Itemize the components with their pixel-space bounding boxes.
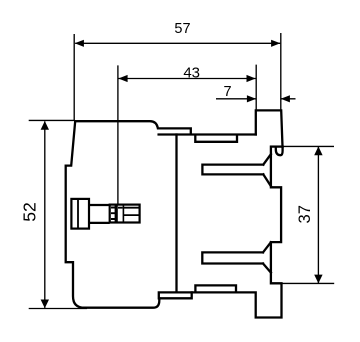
coil terminal screw assembly (71, 199, 139, 229)
svg-text:37: 37 (296, 205, 314, 223)
svg-text:52: 52 (19, 202, 39, 222)
claw J hook (276, 147, 283, 156)
dim 37 line (317, 147, 319, 283)
right side profile: faces, steps and foot (192, 147, 282, 318)
arrow 52 top (41, 121, 49, 130)
divider wall (175, 135, 177, 293)
tab3 above bottom line (195, 285, 236, 292)
dimension graphics (29, 33, 335, 309)
arrow 43 left (118, 75, 127, 82)
dim 43 line (118, 78, 255, 80)
tab2 below top line (195, 135, 237, 142)
upper terminal bar and funnel (202, 154, 271, 186)
arrow 7 right (points left) (281, 95, 290, 102)
clamp box (110, 205, 140, 223)
screw head slot line (77, 199, 79, 229)
clamp inner horizontals (123, 208, 139, 215)
tab4 below bottom line (159, 292, 192, 298)
dim 52 line (44, 121, 46, 308)
thread dashes (111, 208, 123, 220)
arrow 57 right (271, 40, 280, 47)
arrow 37 bottom (314, 275, 322, 284)
mounting flange plate (256, 110, 283, 146)
body outline left and bottom edge (66, 121, 160, 308)
claw notch top line (271, 145, 282, 147)
dim 43 extension lines (118, 65, 256, 205)
dim 57 extension lines (74, 33, 281, 121)
body outline top edge with tab1 (75, 121, 256, 134)
screw shaft (89, 205, 110, 223)
svg-text:43: 43 (183, 64, 200, 81)
svg-text:7: 7 (224, 84, 232, 100)
lower terminal bar and funnel (202, 242, 271, 272)
arrow 7 left (points right) (247, 95, 256, 102)
arrow 57 left (75, 40, 84, 47)
arrow 43 right (247, 75, 256, 82)
dim 52 extension lines (29, 120, 87, 308)
clamp inner verticals (115, 205, 123, 223)
arrow 52 bottom (41, 300, 49, 309)
dim 37 extension lines (283, 146, 335, 283)
screw head (71, 199, 89, 229)
svg-text:57: 57 (174, 21, 190, 37)
dim 57 line (75, 42, 280, 44)
arrow 37 top (314, 146, 322, 155)
dim 7 line segments (216, 98, 296, 100)
